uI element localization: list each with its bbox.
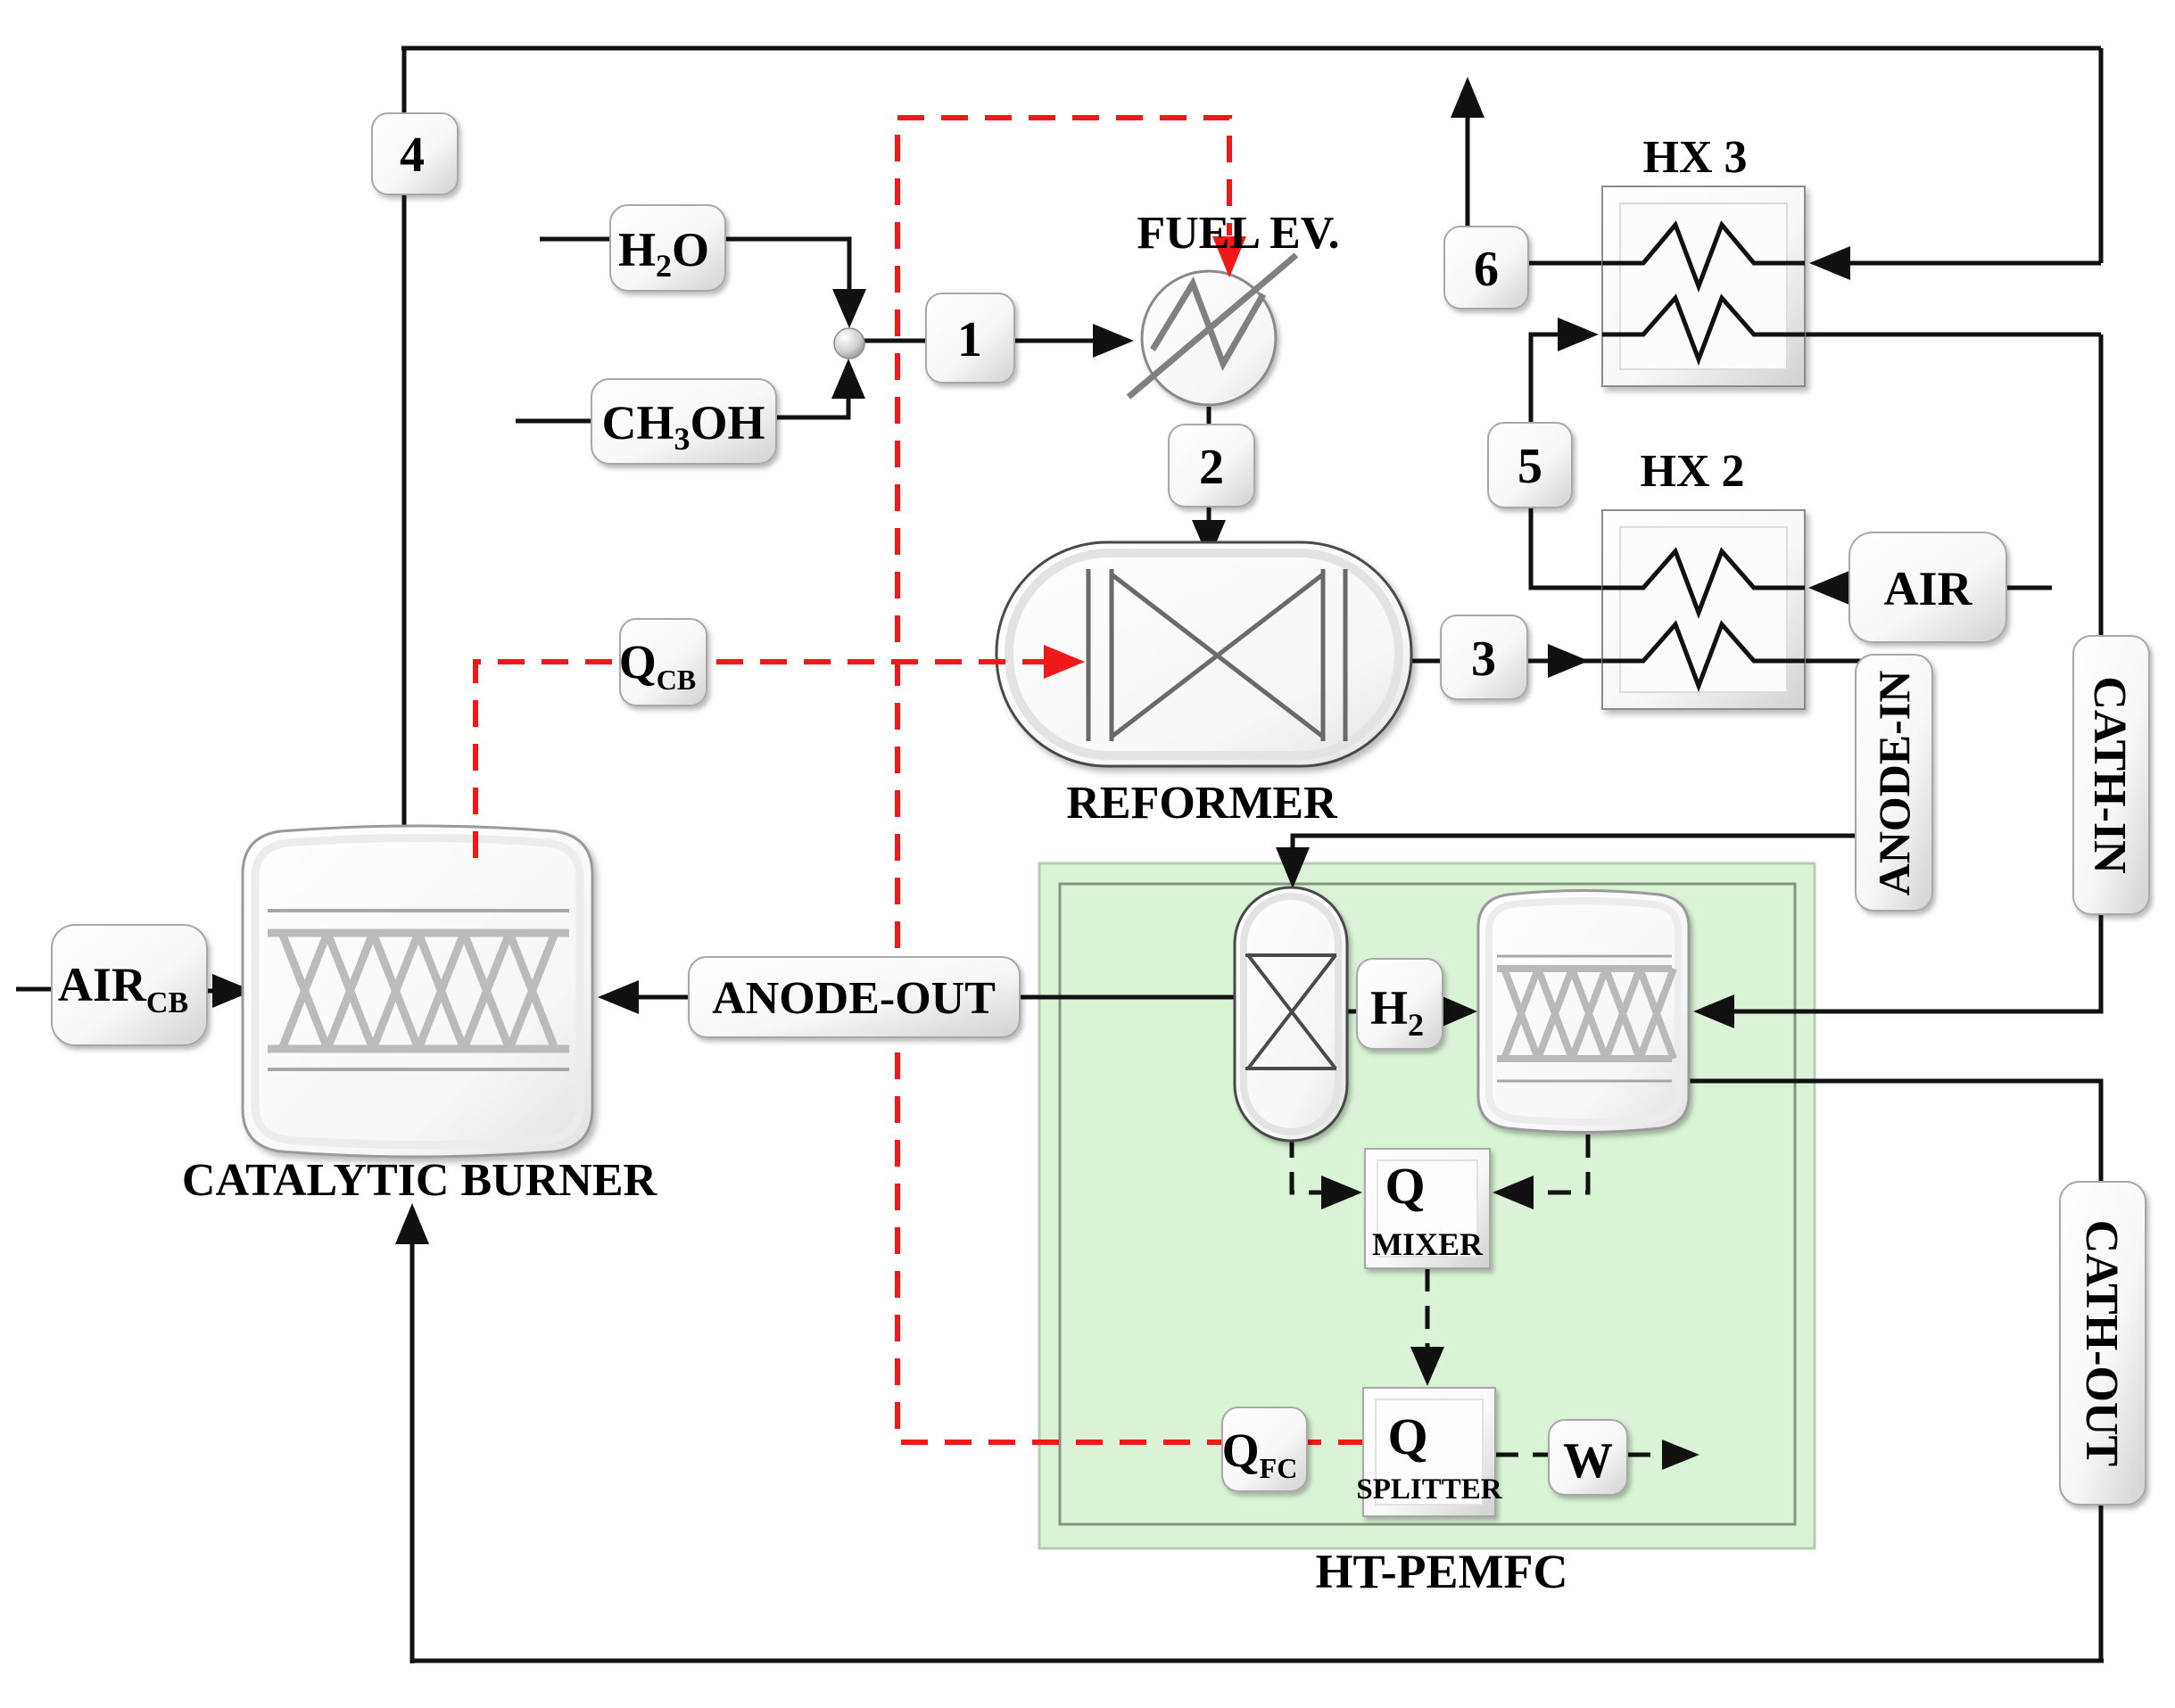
wire AIR_CB left stub: [16, 987, 52, 992]
reformer internals: [1087, 569, 1091, 741]
box CATH-OUT (vertical): [2060, 1182, 2146, 1505]
box stream 2: [1169, 425, 1254, 507]
arrow box3 into HX2: [1548, 644, 1589, 678]
anode internals: [1245, 953, 1336, 957]
arrow AIR_CB into burner: [212, 974, 253, 1008]
svg-text:MIXER: MIXER: [1372, 1226, 1484, 1262]
arrow stream5 into HX3: [1558, 318, 1599, 351]
svg-text:HX 2: HX 2: [1641, 446, 1745, 497]
arrow QCB into reformer: [1044, 645, 1085, 679]
box stream 4: [372, 113, 458, 194]
wire HX2 upper pass with zigzag: [1602, 551, 1805, 613]
arrow into fuel evaporator: [1093, 324, 1134, 358]
wire reformer to box 3: [1411, 659, 1441, 664]
arrow H2O into node: [832, 289, 866, 328]
svg-text:5: 5: [1518, 439, 1542, 494]
svg-text:SPLITTER: SPLITTER: [1356, 1473, 1502, 1506]
arrow exhaust up: [1451, 77, 1484, 118]
cathode vessel: [1478, 891, 1689, 1133]
arrow heat cathode into mixer: [1493, 1176, 1534, 1209]
HX2 zigzags redrawn on top: [1602, 551, 1805, 686]
box CATH-IN (vertical): [2073, 636, 2149, 914]
dashed mixer to splitter: [1426, 1268, 1430, 1350]
svg-text:CATH-IN: CATH-IN: [2084, 676, 2135, 873]
reformer vessel: [997, 542, 1411, 766]
arrow cath-in into cathode: [1693, 994, 1734, 1028]
wire H2O left stub: [540, 237, 610, 242]
wire box 2 down to reformer: [1207, 507, 1212, 521]
svg-text:AIR: AIR: [1883, 562, 1972, 615]
box Q SPLITTER: [1363, 1388, 1495, 1516]
box AIR: [1849, 532, 2006, 642]
dashed W out: [1627, 1453, 1665, 1457]
arrow heat anode into mixer: [1321, 1176, 1362, 1209]
arrow mixer into splitter: [1410, 1347, 1444, 1386]
wire AIR right stub: [2006, 586, 2052, 590]
box QFC: [1222, 1407, 1307, 1491]
anode vessel: [1235, 887, 1347, 1141]
wire anode-in path HX2 to anode vessel: [1293, 661, 1892, 847]
burner internals: [268, 909, 569, 912]
arrow into HX3 hot side: [1809, 246, 1850, 280]
box QCB: [620, 619, 707, 705]
wire CH3OH left stub: [516, 419, 591, 424]
wire stream 4 (burner exhaust, left vertical): [402, 48, 407, 826]
svg-text:ANODE-IN: ANODE-IN: [1869, 671, 1919, 896]
arrow H2 into cathode: [1438, 994, 1477, 1028]
HX3 heat exchanger: [1602, 186, 1805, 386]
catalytic burner vessel: [243, 826, 592, 1157]
mixing node: [834, 328, 864, 359]
svg-text:4: 4: [400, 128, 425, 183]
svg-text:CATH-OUT: CATH-OUT: [2076, 1220, 2127, 1466]
arrow anode-in down into green box: [1276, 847, 1310, 888]
box Q MIXER: [1365, 1149, 1490, 1268]
wire HX3 lower pass with zigzag: [1643, 298, 2101, 359]
wire box 1 to fuel evaporator: [1014, 339, 1094, 343]
HX3 zigzags redrawn on top: [1602, 225, 1805, 359]
wire H2 box to cathode: [1443, 1010, 1447, 1014]
wire stream 5 path HX2 to HX3: [1531, 334, 1602, 588]
arrow W out: [1662, 1440, 1699, 1470]
box stream 3: [1441, 615, 1527, 699]
box stream 1: [926, 293, 1014, 383]
svg-text:6: 6: [1474, 242, 1499, 297]
wire H2O to mixing node: [725, 239, 849, 291]
wire cath-in vertical and into cathode: [1733, 334, 2101, 1011]
box H2: [1357, 959, 1443, 1049]
wire HX2 lower pass with zigzag: [1527, 624, 1805, 686]
svg-text:CATALYTIC BURNER: CATALYTIC BURNER: [182, 1155, 658, 1206]
svg-text:Q: Q: [1387, 1407, 1427, 1465]
dashed splitter to W: [1495, 1453, 1549, 1457]
svg-text:1: 1: [957, 312, 982, 367]
wire into HX3 hot side: [1840, 261, 2101, 266]
box ANODE-OUT: [689, 957, 1020, 1037]
box stream 5: [1488, 423, 1572, 507]
HT-PEMFC green box: [1039, 863, 1815, 1548]
wire top border: [401, 46, 2101, 51]
wire right drop to HX3 hot inlet: [2099, 48, 2104, 263]
box ANODE-IN (vertical): [1856, 655, 1932, 911]
svg-text:3: 3: [1471, 631, 1496, 687]
red dashed heat duty lines: [476, 118, 1365, 1442]
wire anode to H2 box: [1347, 1010, 1357, 1014]
HX2 heat exchanger: [1602, 510, 1805, 709]
wire HX3 upper pass with zigzag: [1528, 225, 1805, 286]
wire anode-out to burner: [639, 995, 689, 1000]
svg-text:Q: Q: [1385, 1157, 1425, 1215]
box CH3OH: [591, 379, 776, 464]
arrow stream2 into reformer: [1192, 520, 1226, 560]
svg-text:2: 2: [1199, 440, 1224, 495]
cathode internals: [1497, 955, 1672, 958]
wire anode-out from anode vessel: [1020, 995, 1235, 1000]
dashed cathode to Q mixer: [1536, 1135, 1588, 1192]
black arrowheads: [212, 77, 1850, 1244]
wire CH3OH to mixing node: [776, 398, 848, 417]
box stream 6: [1444, 227, 1528, 309]
arrow anode-out into burner: [598, 980, 639, 1014]
arrow AIR into HX2: [1808, 571, 1849, 605]
box AIR_CB: [52, 925, 207, 1045]
svg-text:W: W: [1563, 1433, 1613, 1489]
black dashed heat streams: [1292, 1135, 1665, 1455]
wire fuel ev to box 2: [1207, 407, 1212, 425]
wire cath-out from cathode: [1689, 1081, 2101, 1661]
arrow CH3OH into node: [831, 359, 865, 399]
dashed QFC splitter to fuel evaporator: [897, 118, 1365, 1442]
svg-text:FUEL EV.: FUEL EV.: [1137, 208, 1339, 259]
arrow QFC into fuel ev: [1212, 236, 1246, 277]
wire AIR_CB to burner: [207, 989, 214, 994]
wire node to box 1: [862, 339, 926, 343]
arrow burner return up: [395, 1203, 429, 1244]
svg-text:ANODE-OUT: ANODE-OUT: [712, 973, 996, 1024]
dashed anode to Q mixer: [1292, 1135, 1342, 1192]
wire burner return up: [410, 1243, 415, 1663]
svg-text:HX 3: HX 3: [1643, 132, 1748, 183]
dashed QCB burner to reformer: [476, 662, 1044, 858]
svg-text:HT-PEMFC: HT-PEMFC: [1316, 1545, 1568, 1598]
fuel evaporator: [1142, 271, 1276, 405]
box W: [1549, 1420, 1627, 1495]
svg-text:REFORMER: REFORMER: [1066, 778, 1338, 829]
wire exhaust up from box 6: [1466, 109, 1470, 227]
box H2O: [610, 205, 725, 291]
wire bottom border: [412, 1659, 2104, 1663]
